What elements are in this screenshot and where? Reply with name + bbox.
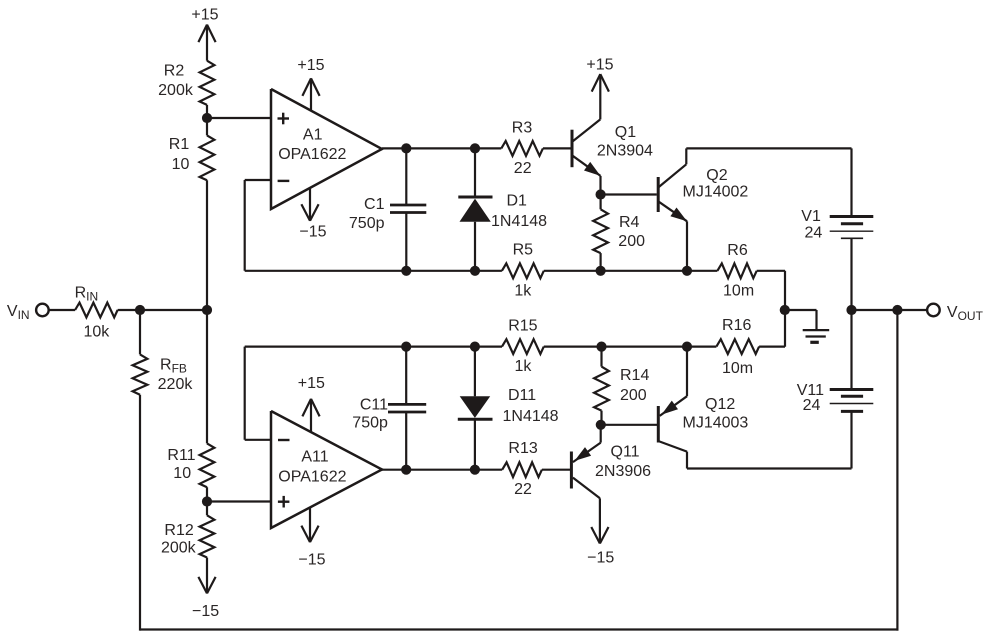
wire A1 noninverting input xyxy=(207,117,271,119)
wire R2-R1 xyxy=(206,105,208,135)
ground xyxy=(803,310,830,342)
svg-text:1N4148: 1N4148 xyxy=(503,408,559,425)
diode D1 xyxy=(458,148,547,270)
resistor R15 xyxy=(502,318,544,376)
node input column xyxy=(202,305,212,315)
svg-text:MJ14002: MJ14002 xyxy=(683,183,749,200)
node C1 bottom xyxy=(401,266,411,276)
wire Q2 collector to V1 xyxy=(686,147,851,149)
node D1 bottom xyxy=(470,266,480,276)
svg-text:2N3906: 2N3906 xyxy=(595,463,651,480)
svg-text:−15: −15 xyxy=(299,224,326,241)
svg-text:OPA1622: OPA1622 xyxy=(278,146,346,163)
svg-text:1k: 1k xyxy=(514,282,532,299)
svg-text:R4: R4 xyxy=(619,214,640,231)
wire battery to VOUT xyxy=(852,309,928,311)
svg-text:10m: 10m xyxy=(723,283,754,300)
power -15 (Q11 collector) xyxy=(587,498,614,566)
svg-text:R1: R1 xyxy=(169,136,190,153)
power +15 (A11) xyxy=(298,375,325,432)
svg-text:A11: A11 xyxy=(301,448,328,465)
power +15 (A1) xyxy=(297,57,324,111)
node A11 input junction xyxy=(202,496,212,506)
battery V11 24 xyxy=(797,310,874,469)
wire A11 output xyxy=(382,469,502,471)
svg-text:R15: R15 xyxy=(508,318,537,335)
node RFB tap xyxy=(135,305,145,315)
svg-text:1k: 1k xyxy=(514,358,532,375)
wire A1 feedback vertical xyxy=(244,180,246,271)
node feedback tap xyxy=(892,305,902,315)
wire A11 inverting input xyxy=(245,439,271,441)
svg-text:10: 10 xyxy=(172,156,190,173)
wire R15 row left xyxy=(245,346,502,348)
svg-text:Q2: Q2 xyxy=(706,167,727,184)
svg-text:−15: −15 xyxy=(587,550,614,567)
wire to ground xyxy=(785,309,817,311)
resistor R13 xyxy=(502,440,542,498)
power -15 (A1) xyxy=(299,188,326,241)
resistor R1 xyxy=(169,135,215,180)
power +15 (Q1 collector) xyxy=(586,56,613,119)
svg-text:R13: R13 xyxy=(508,440,537,457)
wire A1 output xyxy=(382,147,501,149)
resistor R5 xyxy=(502,242,544,300)
svg-text:1N4148: 1N4148 xyxy=(491,213,547,230)
svg-text:−15: −15 xyxy=(298,551,325,568)
diode D11 xyxy=(458,347,559,470)
power -15 (A11) xyxy=(298,507,325,568)
op-amp A11 xyxy=(271,411,382,528)
svg-text:R6: R6 xyxy=(727,242,748,259)
svg-text:+15: +15 xyxy=(298,375,325,392)
svg-text:22: 22 xyxy=(514,481,532,498)
svg-text:R12: R12 xyxy=(164,522,193,539)
wire A11 feedback vertical xyxy=(244,347,246,440)
svg-text:Q12: Q12 xyxy=(705,396,735,413)
transistor Q2 MJ14002 xyxy=(658,148,748,270)
svg-text:+15: +15 xyxy=(586,56,613,73)
svg-text:A1: A1 xyxy=(303,127,323,144)
node speaker return xyxy=(780,305,790,315)
wire R15-R16 xyxy=(544,346,717,348)
wire R6 to ground column xyxy=(757,271,785,347)
svg-text:R14: R14 xyxy=(620,367,649,384)
svg-text:+15: +15 xyxy=(191,7,218,24)
node R1/R2 junction xyxy=(202,113,212,123)
svg-text:22: 22 xyxy=(514,160,532,177)
wire Q12 collector to V11 xyxy=(687,467,852,469)
svg-text:R3: R3 xyxy=(512,119,533,136)
svg-text:C1: C1 xyxy=(364,196,385,213)
svg-text:OPA1622: OPA1622 xyxy=(278,468,346,485)
wire RFB to bottom rail xyxy=(139,395,141,631)
node C1 top xyxy=(401,143,411,153)
svg-text:2N3904: 2N3904 xyxy=(597,142,653,159)
svg-text:VIN: VIN xyxy=(7,303,30,322)
svg-text:R11: R11 xyxy=(167,447,195,464)
resistor R12 xyxy=(161,515,214,557)
wire to RFB xyxy=(139,310,141,354)
svg-text:R16: R16 xyxy=(722,317,751,334)
wire R5-R6 xyxy=(544,270,718,272)
node Q2 emitter bottom xyxy=(682,266,692,276)
resistor R14 xyxy=(594,347,649,425)
resistor R11 xyxy=(167,443,214,487)
svg-text:MJ14003: MJ14003 xyxy=(683,414,749,431)
node Q11 emitter junction xyxy=(596,420,606,430)
svg-text:24: 24 xyxy=(805,224,823,241)
node C11 bottom xyxy=(401,465,411,475)
svg-text:200: 200 xyxy=(620,387,647,404)
resistor R16 xyxy=(716,317,759,377)
node R14 top xyxy=(596,342,606,352)
capacitor C1 xyxy=(349,148,426,270)
svg-text:R5: R5 xyxy=(513,242,534,259)
svg-text:R2: R2 xyxy=(164,63,185,80)
terminal VIN xyxy=(7,303,49,322)
battery V1 24 xyxy=(801,148,873,310)
node C11 top xyxy=(401,342,411,352)
transistor Q12 MJ14003 xyxy=(658,347,748,469)
node D11 bottom xyxy=(470,465,480,475)
wire column to R11 xyxy=(206,310,208,443)
svg-text:RFB: RFB xyxy=(160,356,187,375)
wire A11 noninverting input xyxy=(207,500,271,502)
svg-text:750p: 750p xyxy=(349,215,385,232)
node D1 top xyxy=(470,143,480,153)
svg-text:200: 200 xyxy=(618,233,645,250)
wire R11-R12 xyxy=(206,487,208,515)
node R4 bottom xyxy=(596,266,606,276)
svg-text:10m: 10m xyxy=(722,360,753,377)
svg-text:+15: +15 xyxy=(297,57,324,74)
svg-text:C11: C11 xyxy=(360,396,388,413)
svg-text:D1: D1 xyxy=(507,193,528,210)
svg-text:10: 10 xyxy=(173,465,191,482)
wire A1 inverting input xyxy=(245,179,271,181)
wire Q11 emitter to Q12 base xyxy=(601,424,657,426)
svg-text:−15: −15 xyxy=(192,603,219,620)
node Q1 emitter junction xyxy=(596,189,606,199)
wire feedback loop xyxy=(140,310,899,631)
resistor R4 xyxy=(593,195,645,271)
wire R5 row left xyxy=(245,270,502,272)
resistor R6 xyxy=(717,242,756,300)
wire Q1 emitter to Q2 base xyxy=(601,193,657,195)
capacitor C11 xyxy=(352,347,426,470)
wire VIN-RIN xyxy=(49,309,75,311)
op-amp A1 xyxy=(271,89,382,209)
node Q12 emitter top xyxy=(682,342,692,352)
resistor R3 xyxy=(501,119,543,177)
resistor R2 xyxy=(158,61,214,105)
resistor RFB xyxy=(133,354,194,394)
node battery junction xyxy=(846,305,856,315)
svg-text:RIN: RIN xyxy=(75,284,99,303)
node D11 top xyxy=(470,342,480,352)
wire R3 to Q1 base xyxy=(543,147,571,149)
svg-text:Q1: Q1 xyxy=(615,124,636,141)
svg-text:VOUT: VOUT xyxy=(947,304,984,323)
transistor Q11 2N3906 xyxy=(571,425,651,499)
power +15 (top, R2) xyxy=(191,7,218,61)
terminal VOUT xyxy=(927,304,983,323)
power -15 (R12) xyxy=(192,558,219,621)
svg-text:200k: 200k xyxy=(161,539,197,556)
svg-text:220k: 220k xyxy=(158,376,194,393)
wire R16 to ground column xyxy=(759,346,785,348)
resistor RIN xyxy=(75,284,118,340)
wire RIN to column xyxy=(118,309,207,311)
wire R13 to Q11 base xyxy=(542,469,570,471)
transistor Q1 2N3904 xyxy=(572,119,653,194)
wire R1 to input node xyxy=(206,180,208,310)
svg-text:10k: 10k xyxy=(84,324,111,341)
svg-text:750p: 750p xyxy=(352,414,388,431)
svg-text:D11: D11 xyxy=(508,387,536,404)
svg-text:24: 24 xyxy=(803,397,821,414)
svg-text:Q11: Q11 xyxy=(611,443,640,460)
svg-text:V1: V1 xyxy=(801,208,821,225)
svg-text:200k: 200k xyxy=(158,82,194,99)
